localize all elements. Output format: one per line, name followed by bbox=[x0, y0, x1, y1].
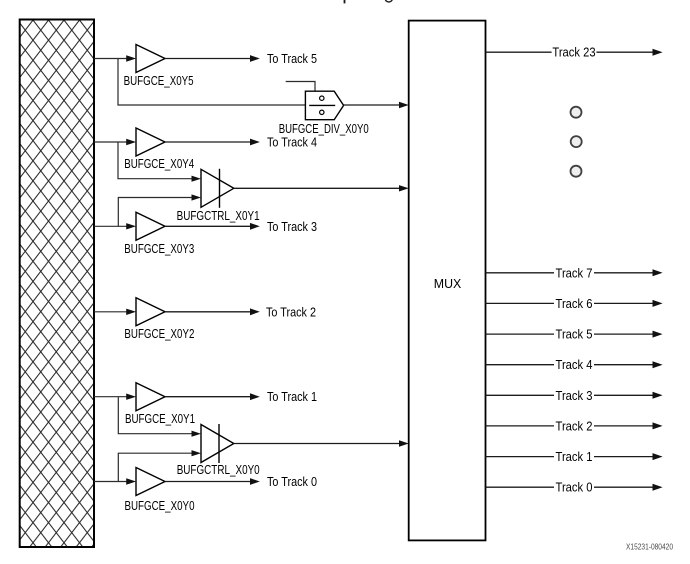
buffer BUFGCE_X0Y4 bbox=[136, 128, 165, 156]
wire: MUX output Track 3 bbox=[486, 389, 663, 403]
wire: CE stub into BUFGCE_DIV bbox=[286, 82, 315, 92]
svg-text:Track 0: Track 0 bbox=[556, 481, 593, 495]
svg-text:BUFGCTRL_X0Y1: BUFGCTRL_X0Y1 bbox=[177, 209, 260, 223]
svg-text:Track 1: Track 1 bbox=[556, 450, 593, 464]
svg-text:Track 6: Track 6 bbox=[556, 297, 593, 311]
wire: BUFGCTRL_X0Y1 output to MUX bbox=[234, 185, 409, 191]
wire: branch from X0Y3 input up to BUFGCTRL_X0Y1 input I1 bbox=[118, 194, 201, 226]
control buffer BUFGCTRL_X0Y1 bbox=[201, 169, 234, 208]
svg-text:X15231-080420: X15231-080420 bbox=[626, 543, 673, 552]
svg-text:BUFGCE_X0Y5: BUFGCE_X0Y5 bbox=[124, 74, 194, 88]
divider buffer BUFGCE_DIV_X0Y0 bbox=[305, 91, 343, 120]
title fragment (cut-off descender of "g") bbox=[385, 0, 392, 2]
wire: BUFGCE_X0Y5 output to Track 5 bbox=[165, 55, 260, 62]
svg-text:Track 3: Track 3 bbox=[556, 389, 593, 403]
svg-text:BUFGCTRL_X0Y0: BUFGCTRL_X0Y0 bbox=[177, 463, 260, 477]
wire: branch from X0Y0 input up to BUFGCTRL_X0Y0 input I1 bbox=[118, 450, 201, 481]
title fragment (cut-off descender of "p") bbox=[344, 0, 346, 3]
svg-text:To Track 4: To Track 4 bbox=[267, 136, 317, 150]
svg-text:To Track 5: To Track 5 bbox=[267, 52, 317, 66]
wire: branch from X0Y5 input down and right to BUFGCE_DIV input bbox=[118, 59, 305, 106]
wire: MUX output Track 7 bbox=[486, 266, 663, 280]
wire: band to BUFGCE_X0Y0 bbox=[94, 478, 136, 484]
wire: MUX output Track 2 bbox=[486, 419, 663, 433]
wire: BUFGCE_X0Y2 output to Track 2 bbox=[165, 308, 260, 315]
wire: branch from X0Y1 input down to BUFGCTRL_X0Y0 input I0 bbox=[118, 397, 201, 437]
ellipsis dot 3 bbox=[571, 166, 582, 177]
svg-text:To Track 3: To Track 3 bbox=[267, 220, 317, 234]
wire: band to BUFGCE_X0Y3 bbox=[94, 223, 136, 229]
svg-text:BUFGCE_X0Y3: BUFGCE_X0Y3 bbox=[124, 242, 194, 256]
svg-text:Track 4: Track 4 bbox=[556, 358, 593, 372]
buffer BUFGCE_X0Y5 bbox=[136, 45, 165, 73]
wire: MUX output Track 4 bbox=[486, 358, 663, 372]
wire: band to BUFGCE_X0Y4 bbox=[94, 139, 136, 145]
wire: BUFGCTRL_X0Y0 output to MUX bbox=[234, 440, 409, 446]
control buffer BUFGCTRL_X0Y0 bbox=[201, 424, 234, 463]
wire: MUX output Track 5 bbox=[486, 328, 663, 342]
svg-text:To Track 0: To Track 0 bbox=[267, 475, 317, 489]
wire: MUX output Track 6 bbox=[486, 297, 663, 311]
buffer BUFGCE_X0Y0 bbox=[136, 468, 165, 496]
svg-text:To Track 2: To Track 2 bbox=[266, 305, 316, 319]
clock routing band (crosshatched) bbox=[20, 20, 94, 548]
wire: band to BUFGCE_X0Y1 bbox=[94, 394, 136, 400]
wire: branch from X0Y4 input down to BUFGCTRL_X0Y1 input I0 bbox=[118, 142, 201, 182]
wire: MUX output Track 0 bbox=[486, 481, 663, 495]
wire: MUX output Track 1 bbox=[486, 450, 663, 464]
svg-text:Track 23: Track 23 bbox=[552, 46, 595, 60]
ellipsis dot 2 bbox=[571, 136, 582, 147]
svg-text:BUFGCE_X0Y2: BUFGCE_X0Y2 bbox=[124, 327, 194, 341]
wire: MUX output Track 23 bbox=[486, 46, 663, 60]
svg-text:Track 2: Track 2 bbox=[556, 419, 593, 433]
svg-text:BUFGCE_DIV_X0Y0: BUFGCE_DIV_X0Y0 bbox=[279, 122, 369, 136]
ellipsis dot 1 bbox=[571, 107, 582, 118]
svg-text:To Track 1: To Track 1 bbox=[267, 390, 317, 404]
buffer BUFGCE_X0Y1 bbox=[136, 383, 165, 411]
wire: BUFGCE_X0Y3 output to Track 3 bbox=[165, 223, 260, 230]
buffer BUFGCE_X0Y2 bbox=[136, 298, 165, 326]
svg-text:Track 5: Track 5 bbox=[556, 328, 593, 342]
svg-text:BUFGCE_X0Y0: BUFGCE_X0Y0 bbox=[125, 499, 195, 513]
svg-text:BUFGCE_X0Y4: BUFGCE_X0Y4 bbox=[124, 157, 194, 171]
wire: BUFGCE_X0Y1 output to Track 1 bbox=[165, 393, 260, 400]
wire: band to BUFGCE_X0Y2 bbox=[94, 309, 136, 315]
wire: BUFGCE_X0Y0 output to Track 0 bbox=[165, 478, 260, 485]
svg-text:Track 7: Track 7 bbox=[556, 266, 593, 280]
wire: BUFGCE_X0Y4 output to Track 4 bbox=[165, 139, 260, 146]
buffer BUFGCE_X0Y3 bbox=[136, 212, 165, 240]
svg-text:BUFGCE_X0Y1: BUFGCE_X0Y1 bbox=[125, 412, 195, 426]
wire: BUFGCE_DIV output to MUX bbox=[344, 102, 409, 108]
wire: band to BUFGCE_X0Y5 bbox=[94, 55, 136, 61]
MUX box bbox=[409, 21, 486, 541]
svg-text:MUX: MUX bbox=[434, 277, 462, 291]
